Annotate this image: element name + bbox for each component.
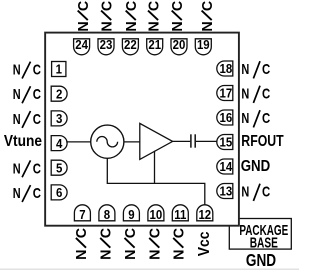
- svg-text:C: C: [262, 110, 271, 127]
- svg-text:N: N: [241, 183, 249, 200]
- svg-text:C: C: [200, 1, 216, 11]
- pin 3: [51, 111, 67, 126]
- pin 5 label N/C: [13, 160, 42, 178]
- wire amplifier to capacitor: [173, 140, 191, 142]
- svg-text:N: N: [13, 86, 21, 103]
- pin 22 label N/C: [124, 1, 140, 32]
- svg-text:N: N: [76, 21, 92, 31]
- svg-text:3: 3: [56, 111, 63, 126]
- svg-text:C: C: [146, 1, 162, 11]
- svg-text:N: N: [170, 21, 186, 31]
- svg-text:C: C: [262, 183, 271, 200]
- svg-text:2: 2: [56, 87, 63, 102]
- svg-text:4: 4: [56, 136, 63, 151]
- svg-text:11: 11: [174, 207, 186, 222]
- svg-text:N: N: [99, 21, 115, 31]
- separator rule: [0, 268, 299, 270]
- IC body: [45, 33, 239, 226]
- svg-text:14: 14: [220, 160, 233, 175]
- svg-text:N: N: [74, 250, 90, 260]
- pin 21 label N/C: [146, 1, 162, 32]
- svg-text:17: 17: [220, 86, 233, 101]
- pin 2 label N/C: [13, 86, 42, 104]
- svg-text:C: C: [262, 61, 271, 78]
- svg-text:N: N: [13, 160, 21, 177]
- pin 22: [122, 37, 138, 54]
- svg-text:23: 23: [100, 37, 113, 52]
- pin 11 label N/C: [172, 228, 188, 260]
- package base box: [229, 219, 291, 250]
- svg-text:C: C: [33, 86, 42, 103]
- svg-text:N: N: [172, 250, 188, 260]
- pin 8 label N/C: [99, 228, 115, 260]
- svg-text:C: C: [74, 228, 90, 238]
- pin 1: [52, 62, 66, 77]
- svg-text:C: C: [123, 228, 139, 238]
- pin 9 label N/C: [123, 228, 139, 260]
- svg-text:N: N: [146, 21, 162, 31]
- svg-text:C: C: [172, 228, 188, 238]
- pin 18 label N/C: [241, 61, 270, 79]
- svg-text:C: C: [33, 61, 42, 78]
- pin 2: [51, 86, 67, 101]
- amplifier A1: [140, 123, 173, 159]
- pin 23 label N/C: [99, 1, 115, 32]
- wire capacitor to pin 15 RFOUT: [196, 140, 217, 142]
- svg-text:N: N: [241, 110, 249, 127]
- wire pin4 to oscillator: [66, 141, 91, 143]
- svg-text:C: C: [33, 185, 42, 202]
- svg-text:GND: GND: [246, 251, 276, 270]
- svg-text:N: N: [13, 61, 21, 78]
- pin 16 label N/C: [241, 110, 270, 128]
- pin 15: [217, 135, 233, 150]
- svg-text:C: C: [170, 1, 186, 11]
- pin 20 label N/C: [170, 1, 186, 32]
- svg-text:Vcc: Vcc: [196, 231, 213, 256]
- pin 17 label N/C: [241, 85, 270, 103]
- pin 13 label N/C: [241, 183, 270, 201]
- wire oscillator to amplifier: [124, 141, 140, 143]
- svg-text:C: C: [76, 1, 92, 11]
- svg-text:5: 5: [56, 161, 63, 176]
- pin 11: [172, 205, 188, 222]
- pin 10: [148, 205, 164, 222]
- pin 24: [74, 37, 90, 54]
- pin 18: [217, 61, 233, 76]
- svg-text:8: 8: [104, 207, 111, 222]
- svg-text:C: C: [262, 85, 271, 102]
- package base label: [239, 222, 288, 251]
- pin 10 label N/C: [148, 228, 164, 260]
- pin 13: [217, 184, 233, 199]
- pin 16: [217, 110, 233, 125]
- pin 6 label N/C: [13, 184, 42, 202]
- svg-text:10: 10: [150, 207, 163, 222]
- pin 23: [98, 37, 114, 54]
- svg-text:20: 20: [173, 37, 186, 52]
- pin 6: [51, 185, 67, 200]
- Vcc rail wire: oscillator to pin 12: [107, 158, 205, 205]
- svg-text:N: N: [241, 61, 249, 78]
- pin 24 label N/C: [76, 1, 92, 32]
- svg-text:N: N: [123, 250, 139, 260]
- pin 20: [171, 37, 187, 54]
- pin 8: [99, 205, 115, 222]
- svg-text:GND: GND: [241, 158, 270, 175]
- svg-text:C: C: [33, 160, 42, 177]
- svg-text:18: 18: [220, 62, 233, 77]
- svg-text:C: C: [33, 111, 42, 128]
- pin 7 label N/C: [74, 228, 90, 260]
- svg-text:9: 9: [128, 207, 135, 222]
- svg-text:N: N: [241, 85, 249, 102]
- svg-text:21: 21: [148, 37, 161, 52]
- pin 12: [197, 205, 213, 222]
- pin 5: [51, 160, 67, 175]
- pin 4: [51, 136, 67, 151]
- svg-text:N: N: [13, 184, 21, 201]
- svg-text:12: 12: [198, 207, 211, 222]
- svg-text:C: C: [99, 228, 115, 238]
- svg-text:15: 15: [220, 135, 233, 150]
- pin 14: [217, 159, 233, 174]
- pin 1 label N/C: [13, 61, 42, 79]
- amplifier bias stub wire: [154, 151, 156, 184]
- svg-text:Vtune: Vtune: [4, 133, 42, 150]
- svg-text:13: 13: [220, 184, 233, 199]
- svg-text:7: 7: [79, 207, 86, 222]
- pin 3 label N/C: [13, 110, 42, 128]
- pin 19 label N/C: [200, 1, 216, 32]
- svg-text:22: 22: [124, 37, 137, 52]
- pin 19: [195, 37, 211, 54]
- svg-text:1: 1: [56, 62, 63, 77]
- svg-text:24: 24: [75, 37, 88, 52]
- pin 17: [217, 86, 233, 101]
- pin 7: [74, 205, 90, 222]
- oscillator U1: [91, 125, 124, 158]
- pin 21: [147, 37, 163, 54]
- pin 9: [123, 205, 139, 222]
- svg-text:C: C: [99, 1, 115, 11]
- svg-text:N: N: [148, 250, 164, 260]
- capacitor C1 DC block: [191, 134, 195, 147]
- svg-text:N: N: [200, 21, 216, 31]
- svg-text:C: C: [124, 1, 140, 11]
- svg-text:N: N: [99, 250, 115, 260]
- svg-text:16: 16: [220, 111, 233, 126]
- svg-text:N: N: [13, 110, 21, 127]
- svg-text:N: N: [124, 21, 140, 31]
- svg-text:19: 19: [197, 37, 210, 52]
- svg-text:RFOUT: RFOUT: [241, 133, 284, 151]
- svg-text:BASE: BASE: [250, 235, 278, 251]
- svg-text:6: 6: [56, 185, 63, 200]
- svg-text:C: C: [148, 228, 164, 238]
